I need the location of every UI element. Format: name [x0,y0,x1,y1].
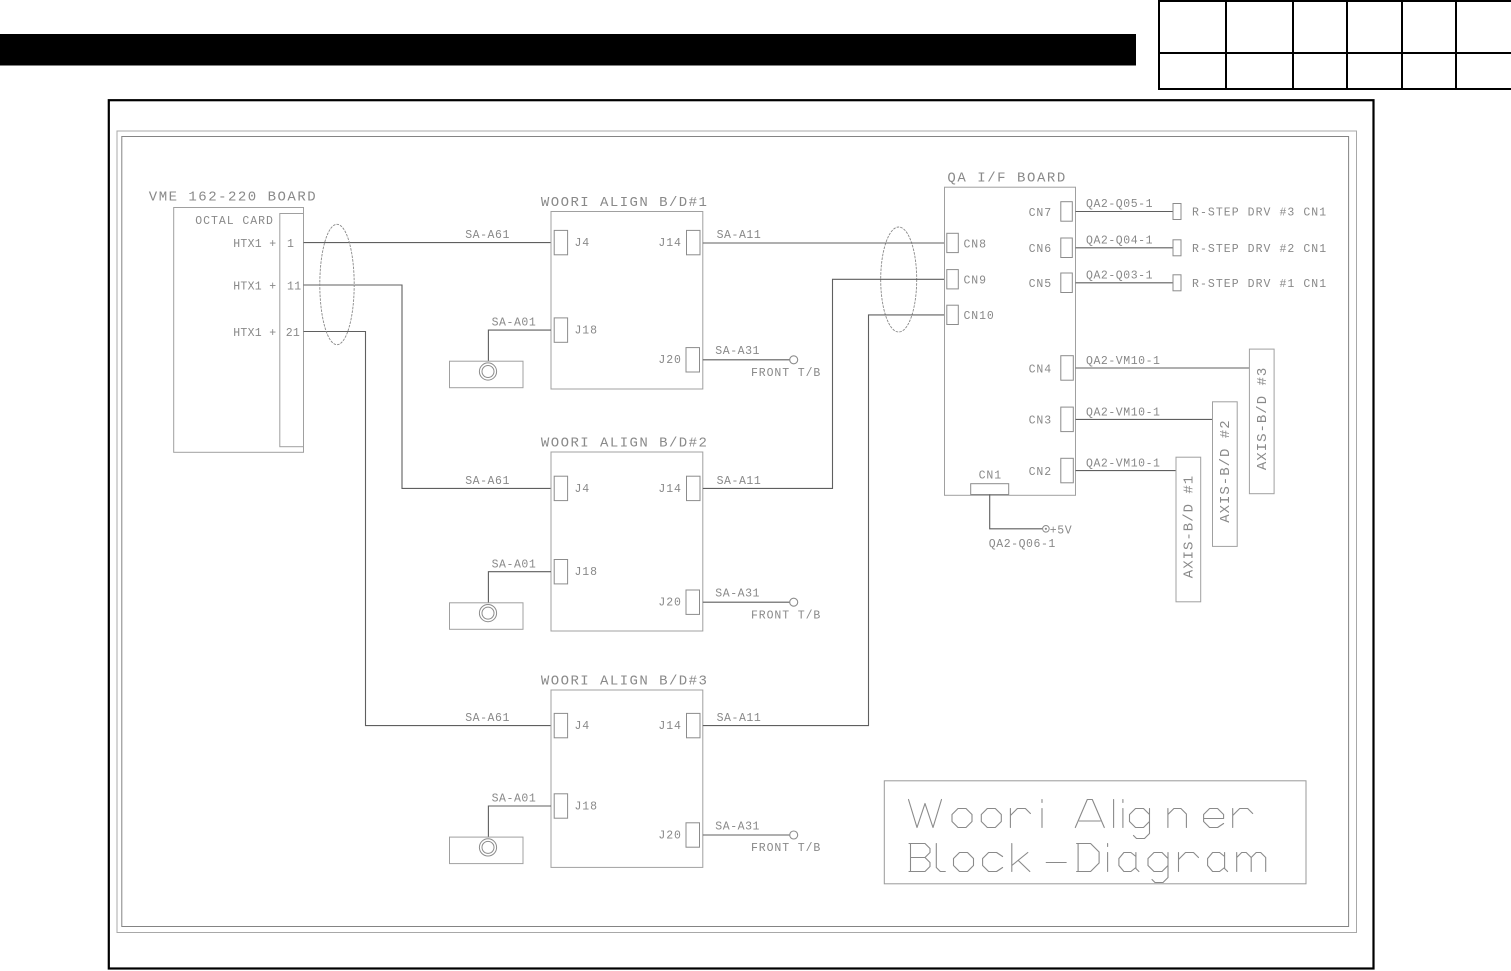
svg-text:QA2-Q06-1: QA2-Q06-1 [989,538,1056,551]
svg-text:SA-A11: SA-A11 [717,712,762,725]
svg-text:R-STEP DRV #1 CN1: R-STEP DRV #1 CN1 [1192,278,1327,291]
svg-text:CN9: CN9 [964,275,987,288]
svg-text:J14: J14 [658,237,681,250]
svg-text:J4: J4 [575,720,591,733]
svg-text:FRONT T/B: FRONT T/B [751,842,821,855]
svg-text:QA2-VM10-1: QA2-VM10-1 [1086,458,1161,471]
svg-text:QA2-Q05-1: QA2-Q05-1 [1086,198,1153,211]
svg-text:QA2-VM10-1: QA2-VM10-1 [1086,406,1161,419]
svg-text:SA-A01: SA-A01 [492,317,537,330]
svg-text:21: 21 [286,327,300,340]
svg-text:SA-A61: SA-A61 [465,475,510,488]
svg-text:WOORI ALIGN B/D#2: WOORI ALIGN B/D#2 [541,435,708,451]
svg-text:HTX1 +: HTX1 + [233,327,276,340]
svg-text:J4: J4 [575,483,591,496]
svg-text:SA-A31: SA-A31 [715,820,760,833]
svg-text:1: 1 [287,238,294,251]
svg-text:OCTAL CARD: OCTAL CARD [195,215,274,228]
svg-text:AXIS-B/D #2: AXIS-B/D #2 [1218,419,1234,522]
svg-text:SA-A31: SA-A31 [715,588,760,601]
svg-text:CN2: CN2 [1029,466,1052,479]
svg-text:CN8: CN8 [964,238,987,251]
svg-text:J18: J18 [575,566,598,579]
svg-text:QA I/F BOARD: QA I/F BOARD [947,171,1066,187]
svg-text:HTX1 +: HTX1 + [233,280,276,293]
svg-text:J4: J4 [575,237,591,250]
svg-text:J18: J18 [575,800,598,813]
svg-text:SA-A61: SA-A61 [465,712,510,725]
svg-text:J18: J18 [575,325,598,338]
svg-text:WOORI ALIGN B/D#3: WOORI ALIGN B/D#3 [541,673,708,689]
svg-text:J14: J14 [658,483,681,496]
svg-text:WOORI ALIGN B/D#1: WOORI ALIGN B/D#1 [541,195,708,211]
svg-text:CN6: CN6 [1029,243,1052,256]
svg-text:QA2-Q04-1: QA2-Q04-1 [1086,234,1153,247]
svg-text:SA-A11: SA-A11 [717,475,762,488]
svg-text:FRONT T/B: FRONT T/B [751,367,821,380]
svg-text:J20: J20 [658,597,681,610]
svg-text:J20: J20 [658,829,681,842]
svg-text:J20: J20 [658,354,681,367]
svg-text:R-STEP DRV #2 CN1: R-STEP DRV #2 CN1 [1192,243,1327,256]
svg-text:HTX1 +: HTX1 + [233,238,276,251]
svg-text:AXIS-B/D #3: AXIS-B/D #3 [1255,367,1271,470]
svg-text:SA-A61: SA-A61 [465,229,510,242]
svg-text:QA2-Q03-1: QA2-Q03-1 [1086,269,1153,282]
svg-text:QA2-VM10-1: QA2-VM10-1 [1086,355,1161,368]
svg-text:SA-A31: SA-A31 [715,345,760,358]
svg-text:VME 162-220 BOARD: VME 162-220 BOARD [149,190,317,206]
svg-text:CN10: CN10 [964,310,995,323]
svg-text:+5V: +5V [1050,524,1072,537]
svg-text:11: 11 [287,280,301,293]
svg-text:CN1: CN1 [979,469,1002,482]
svg-text:CN7: CN7 [1029,207,1052,220]
svg-text:SA-A01: SA-A01 [492,793,537,806]
svg-text:J14: J14 [658,720,681,733]
svg-text:FRONT T/B: FRONT T/B [751,609,821,622]
svg-text:CN3: CN3 [1029,415,1052,428]
svg-text:SA-A11: SA-A11 [717,229,762,242]
svg-text:AXIS-B/D #1: AXIS-B/D #1 [1182,475,1198,578]
svg-text:CN4: CN4 [1029,363,1052,376]
svg-text:CN5: CN5 [1029,278,1052,291]
svg-text:SA-A01: SA-A01 [492,558,537,571]
svg-text:R-STEP DRV #3 CN1: R-STEP DRV #3 CN1 [1192,207,1327,220]
